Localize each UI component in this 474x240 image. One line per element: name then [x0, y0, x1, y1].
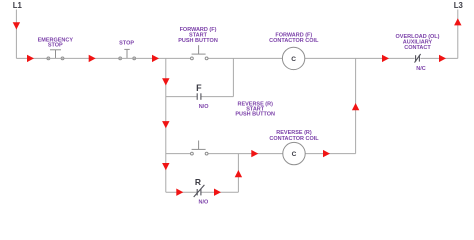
wire reverse button to coil [207, 153, 283, 155]
wire R branch rise [237, 154, 239, 193]
svg-text:OVERLOAD (OL)AUXILIARYCONTACT: OVERLOAD (OL)AUXILIARYCONTACT [396, 34, 440, 51]
power flow arrow down on left rail middle [162, 121, 169, 128]
wire L3 rise [457, 10, 459, 59]
wire emergency stop to stop [63, 57, 121, 59]
power flow arrow right on R branch right [214, 189, 221, 196]
pushbutton STOP (N/C) [119, 49, 136, 59]
wire forward coil to overload contact [305, 57, 415, 59]
contact OL overload auxiliary (N/C) [415, 54, 421, 63]
wire closed-contact bridge stop [119, 57, 136, 59]
svg-text:L3: L3 [454, 1, 464, 10]
wire F branch drop [232, 58, 234, 96]
svg-text:FORWARD (F)CONTACTOR COIL: FORWARD (F)CONTACTOR COIL [269, 33, 319, 44]
svg-text:F: F [196, 83, 202, 93]
power flow arrow down on L1 drop [13, 22, 20, 29]
power flow arrow right after overload contact [439, 55, 446, 62]
svg-text:REVERSE (R)STARTPUSH BUTTON: REVERSE (R)STARTPUSH BUTTON [235, 102, 275, 118]
power flow arrow right before stop [89, 55, 96, 62]
svg-text:N/C: N/C [416, 66, 426, 72]
power flow arrow down on left rail lower [162, 163, 169, 170]
pushbutton EMERGENCY STOP (N/C) [47, 50, 64, 60]
contact R interlock (drawn N/C) [194, 185, 205, 197]
wire R branch row [166, 191, 197, 193]
power flow arrow right after stop [152, 55, 159, 62]
power flow arrow down on left rail upper [162, 78, 169, 85]
wire F contact branch [166, 96, 197, 98]
svg-text:C: C [291, 56, 296, 63]
wire left rail down [165, 58, 167, 192]
wire reverse row left [166, 153, 192, 155]
power flow arrow right after reverse junction [251, 150, 258, 157]
power flow arrow right after reverse coil [323, 150, 330, 157]
contactor coil C reverse U2 [283, 142, 305, 164]
wire right rail up [355, 58, 357, 153]
power flow arrow up on R branch rise [235, 170, 242, 177]
wire forward button to forward coil [207, 57, 283, 59]
wire top rail segment L1 corner to emergency stop [16, 57, 48, 59]
svg-text:L1: L1 [13, 1, 23, 10]
power flow arrow up on right rail [352, 103, 359, 110]
svg-text:EMERGENCYSTOP: EMERGENCYSTOP [38, 37, 74, 48]
svg-text:N/O: N/O [199, 104, 210, 110]
wire closed-contact bridge emergency stop [47, 57, 64, 59]
wire stop to forward button [134, 57, 192, 59]
wire reverse coil to right rail [305, 153, 355, 155]
power flow arrow up on L3 rise [454, 18, 461, 25]
svg-text:FORWARD (F)STARTPUSH BUTTON: FORWARD (F)STARTPUSH BUTTON [178, 27, 218, 44]
pushbutton FORWARD (F) START (N/O) [191, 45, 209, 60]
power flow arrow right on R branch left [176, 189, 183, 196]
wire R branch row right [201, 191, 238, 193]
wire F contact branch right [201, 96, 233, 98]
svg-text:N/O: N/O [199, 200, 210, 206]
contact F auxiliary (N/O) [197, 93, 201, 100]
wire overload contact to L3 corner [420, 57, 457, 59]
power flow arrow right before emergency stop [27, 55, 34, 62]
pushbutton REVERSE (R) START (N/O) [191, 141, 209, 156]
power flow arrow right before overload contact [382, 55, 389, 62]
svg-text:R: R [195, 177, 201, 187]
wire L1 drop [15, 10, 17, 59]
svg-text:STOP: STOP [119, 41, 134, 47]
svg-text:REVERSE (R)CONTACTOR COIL: REVERSE (R)CONTACTOR COIL [269, 130, 319, 142]
svg-text:C: C [292, 151, 297, 158]
contactor coil C forward U1 [282, 47, 304, 69]
